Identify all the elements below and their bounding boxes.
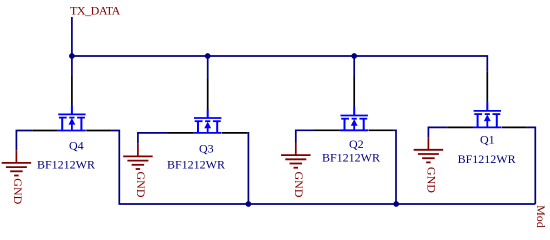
wire drain of Q1 down to Mod bus [527, 127, 536, 204]
wire source of Q4 to GND1 [16, 131, 32, 151]
wire gate drop to Q4 [71, 56, 73, 75]
transistor Q1 MOSFET symbol body [473, 102, 501, 128]
wire TX_DATA vertical + top bus + corner down to Q1 gate [72, 17, 487, 72]
svg-text:BF1212WR: BF1212WR [167, 157, 225, 171]
wire source of Q3 to GND2 [138, 133, 168, 144]
transistor Q1 pin S (source pin, left) [448, 126, 473, 128]
svg-text:GND: GND [292, 172, 306, 198]
transistor Q3 MOSFET symbol body [193, 109, 221, 133]
junction dot Mod bus at Q2 drain [393, 201, 399, 207]
transistor Q4 MOSFET symbol body [58, 105, 86, 130]
wire bottom Mod bus [119, 203, 536, 205]
wire source of Q2 to GND3 [296, 130, 315, 142]
transistor Q4 pin S (source pin, left) [32, 130, 57, 132]
svg-text:Q2: Q2 [349, 137, 364, 151]
wire drain of Q2 down to Mod bus [394, 130, 396, 204]
ground GND1 [2, 150, 32, 204]
junction dot top bus at Q3 gate [205, 53, 211, 59]
svg-text:Q4: Q4 [69, 138, 84, 152]
svg-text:GND: GND [425, 167, 439, 193]
wire drain of Q3 down to Mod bus [247, 133, 248, 204]
svg-text:Q1: Q1 [480, 133, 495, 147]
transistor Q3 pin D (drain pin, right) [222, 132, 247, 134]
svg-text:BF1212WR: BF1212WR [322, 150, 380, 164]
svg-text:BF1212WR: BF1212WR [458, 152, 516, 166]
transistor Q1 pin D (drain pin, right) [502, 126, 527, 128]
svg-text:Mod: Mod [534, 205, 548, 228]
transistor Q4 pin D (drain pin, right) [86, 130, 111, 132]
wire drain of Q4 down to Mod bus [111, 131, 119, 205]
transistor Q4 pin G (gate pin, top) [71, 75, 73, 105]
transistor Q3 pin S (source pin, left) [168, 132, 193, 134]
ground GND2 [123, 144, 152, 198]
svg-text:Q3: Q3 [199, 141, 214, 155]
svg-text:TX_DATA: TX_DATA [70, 4, 121, 18]
transistor Q2 MOSFET symbol body [340, 107, 368, 131]
svg-text:BF1212WR: BF1212WR [37, 157, 95, 171]
svg-text:GND: GND [11, 178, 25, 204]
svg-text:GND: GND [134, 172, 148, 198]
ground GND4 [414, 137, 444, 193]
transistor Q1 pin G (gate pin, top) [486, 72, 488, 102]
transistor Q2 pin G (gate pin, top) [353, 77, 355, 107]
transistor Q3 pin G (gate pin, top) [207, 79, 209, 109]
transistor Q2 pin D (drain pin, right) [369, 129, 394, 131]
ground GND3 [281, 143, 311, 198]
transistor Q2 pin S (source pin, left) [315, 129, 340, 131]
wire gate drop to Q3 [207, 56, 209, 79]
junction dot Mod bus at Q3 drain [246, 201, 252, 207]
junction dot at TX_DATA / top bus (node TX_DATA) [69, 53, 75, 59]
wire gate drop to Q2 [353, 56, 355, 77]
wire source of Q1 to GND4 [428, 127, 447, 137]
junction dot top bus at Q2 gate [351, 53, 357, 59]
